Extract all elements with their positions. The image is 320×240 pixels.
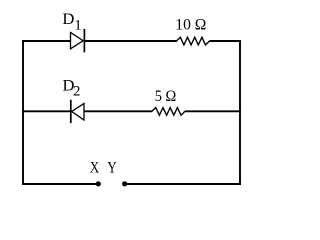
terminal X dot bbox=[96, 181, 101, 186]
wire: bottom left segment to terminal X bbox=[22, 183, 98, 185]
wire: top right segment R1 to right rail bbox=[210, 40, 241, 42]
terminal Y dot bbox=[122, 181, 127, 186]
wire: middle right segment R2 to right rail bbox=[185, 110, 241, 112]
resistor R1 10 ohm bbox=[177, 37, 210, 45]
svg-text:X: X bbox=[90, 160, 99, 177]
wire: left vertical rail bbox=[22, 40, 24, 185]
wire: middle segment D2 anode to R2 bbox=[84, 110, 152, 112]
diode D1 bbox=[71, 29, 85, 53]
svg-text:10 Ω: 10 Ω bbox=[175, 17, 206, 34]
wire: top left segment to D1 anode bbox=[22, 40, 70, 42]
svg-text:5 Ω: 5 Ω bbox=[155, 88, 177, 105]
wire: right vertical rail bbox=[239, 40, 241, 185]
svg-text:1: 1 bbox=[74, 17, 82, 33]
wire: bottom right segment from terminal Y bbox=[125, 183, 241, 185]
svg-text:Y: Y bbox=[107, 160, 116, 177]
wire: top middle segment D1 cathode to R1 bbox=[84, 40, 176, 42]
resistor R2 5 ohm bbox=[152, 108, 185, 116]
wire: middle left segment to D2 cathode bbox=[22, 110, 71, 112]
diode D2 bbox=[71, 100, 84, 123]
svg-text:2: 2 bbox=[73, 83, 80, 99]
svg-text:D: D bbox=[62, 11, 74, 28]
